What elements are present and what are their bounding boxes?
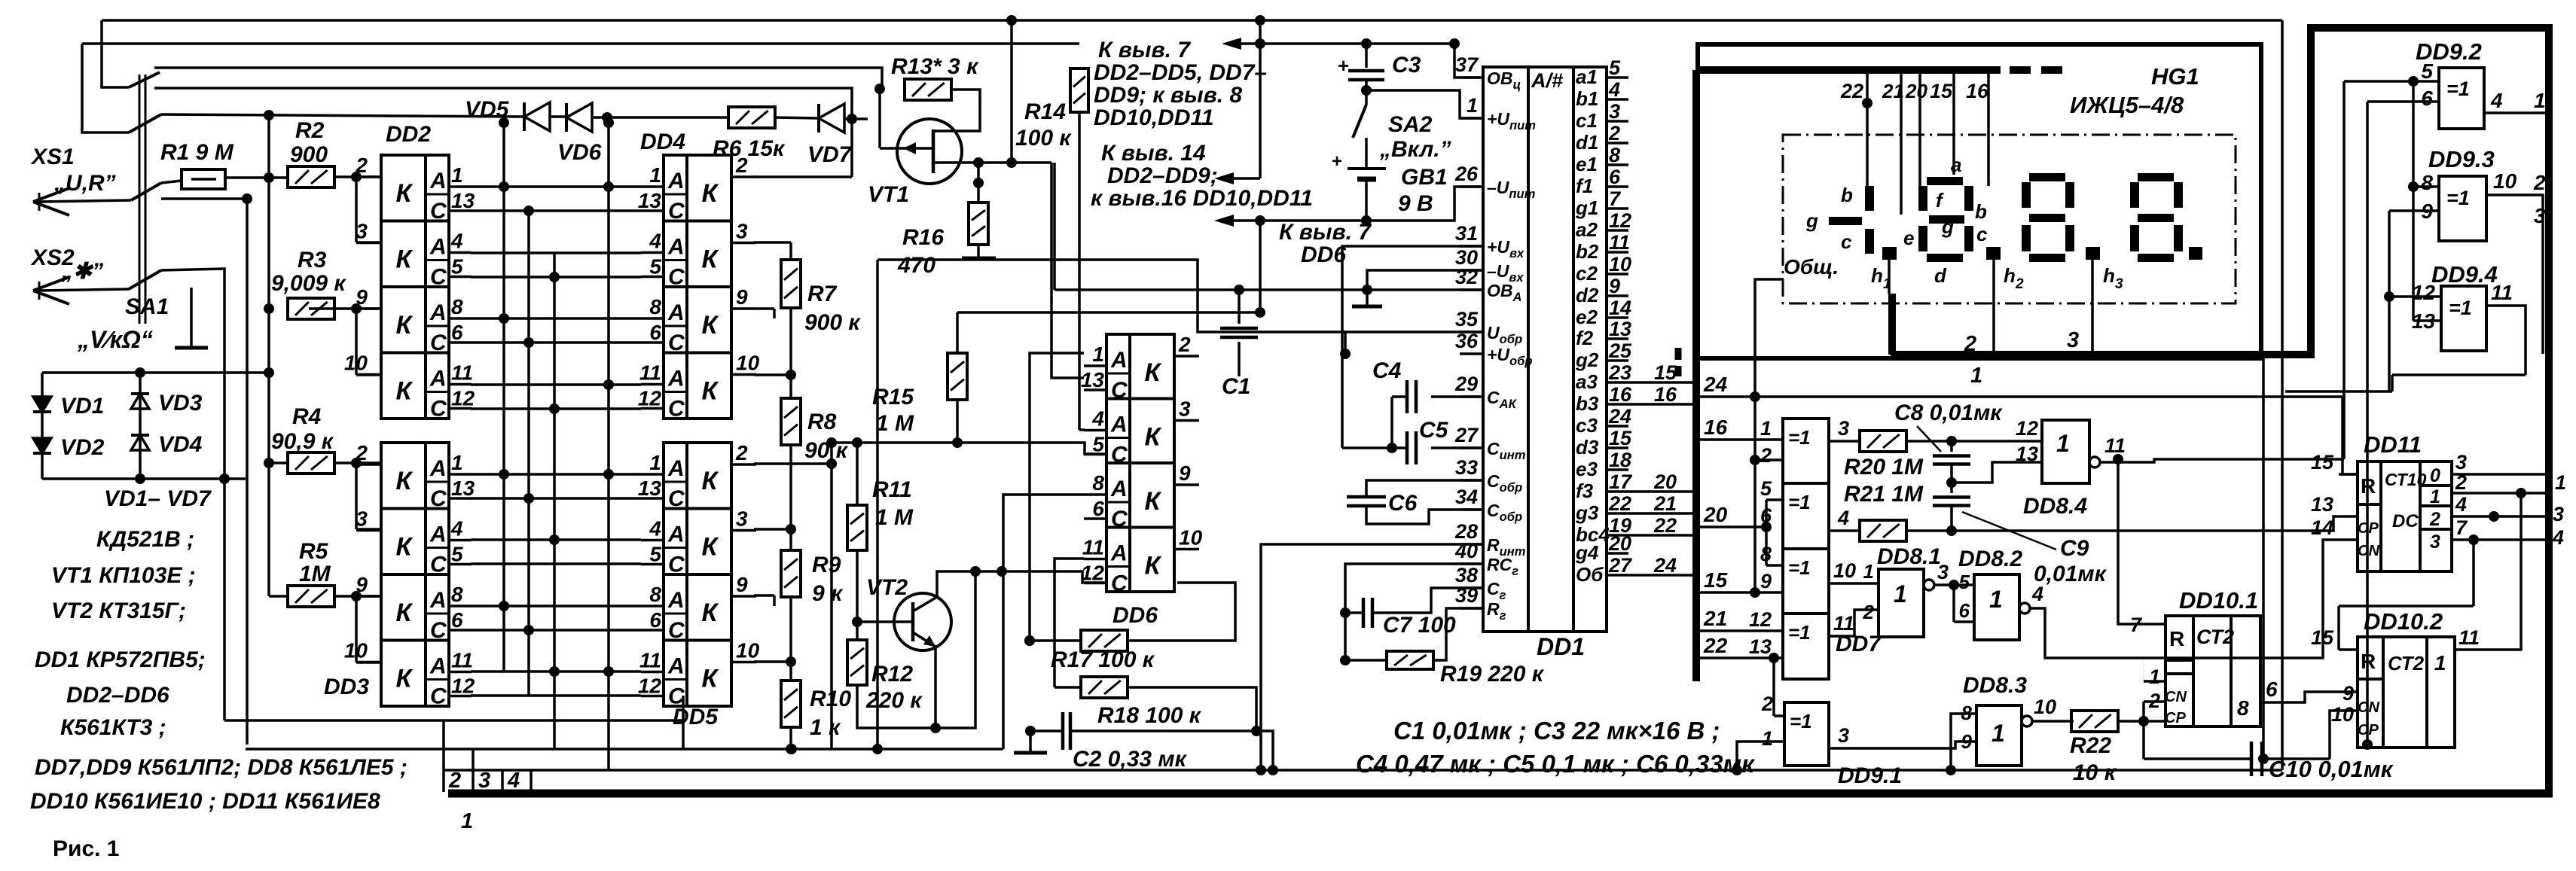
svg-text:R2: R2	[295, 118, 325, 143]
svg-text:К: К	[1145, 358, 1162, 387]
IC DD11 pin15	[2339, 473, 2358, 476]
wire bridge mid	[139, 373, 142, 479]
connector XS1 plug	[33, 188, 69, 202]
wire DD9.2 out4	[2484, 111, 2549, 114]
svg-text:15: 15	[1930, 80, 1953, 102]
svg-text:SA1: SA1	[125, 294, 169, 319]
wire R5 in	[269, 595, 288, 598]
wire DD11 out7	[2452, 538, 2549, 541]
wire mesh vertical b	[527, 211, 530, 696]
svg-text:35: 35	[1455, 308, 1479, 330]
svg-text:15: 15	[1609, 427, 1632, 449]
display HG1 box	[1698, 44, 2261, 358]
resistor R12	[847, 640, 867, 685]
wire bottom y957	[224, 719, 683, 722]
wire bus tick 3	[472, 749, 475, 792]
IC DD8.4 body	[2042, 420, 2089, 483]
wire Obshch	[1755, 279, 1784, 397]
wire DD1 net 16	[1628, 403, 1696, 406]
battery GB1	[1348, 167, 1386, 170]
capacitor C3	[1365, 44, 1368, 68]
svg-text:R: R	[2169, 627, 2184, 650]
resistor R15	[948, 353, 967, 400]
wire bus tick 1	[530, 770, 533, 792]
svg-text:g3: g3	[1575, 501, 1599, 524]
svg-text:20: 20	[1703, 503, 1728, 526]
wire R13 loop right	[932, 90, 980, 131]
resistor R3	[288, 298, 334, 319]
IC DD11 pin14	[2339, 539, 2358, 541]
svg-text:К: К	[396, 533, 414, 562]
svg-text:11: 11	[451, 361, 473, 385]
resistor R5	[288, 586, 334, 607]
wire R21 out long	[1906, 516, 2358, 531]
svg-text:4: 4	[450, 230, 463, 253]
wire OVA ground rail	[1055, 288, 1483, 291]
wire bottom y1023	[444, 769, 2282, 772]
svg-text:Oб: Oб	[1576, 563, 1604, 586]
svg-text:=1: =1	[2446, 187, 2470, 209]
svg-text:11: 11	[2104, 434, 2126, 457]
svg-text:5: 5	[451, 255, 463, 279]
junction R1/R2 node	[264, 172, 274, 183]
svg-text:DD9.1: DD9.1	[1838, 763, 1902, 788]
svg-text:d2: d2	[1576, 284, 1599, 306]
svg-text:4: 4	[2031, 583, 2043, 605]
wire R11 to R12	[856, 550, 859, 640]
svg-text:8: 8	[1609, 144, 1620, 166]
display pin 20 wire	[1918, 74, 1921, 186]
svg-text:9: 9	[736, 573, 748, 596]
junction C8 bottom	[1946, 477, 1957, 488]
svg-text:СР: СР	[2165, 710, 2186, 726]
wire top bus L3 to R13	[154, 68, 882, 89]
svg-text:h: h	[2103, 264, 2115, 287]
digit1 segment b	[1865, 186, 1874, 211]
wire DD9.4 in12	[2389, 295, 2441, 298]
svg-text:С: С	[1111, 507, 1128, 531]
svg-text:470: 470	[897, 253, 935, 278]
svg-text:К: К	[702, 598, 719, 627]
svg-text:6: 6	[1609, 166, 1621, 188]
wire DD3 pins 9-10 link	[355, 596, 358, 662]
wire DD6 A1 feeder	[1030, 353, 1084, 641]
wire R19 left	[1345, 659, 1387, 662]
svg-text:22: 22	[1653, 514, 1677, 537]
svg-text:32: 32	[1455, 266, 1478, 288]
IC DD5 switch array	[664, 443, 731, 706]
svg-text:К: К	[1145, 487, 1162, 516]
svg-text:10: 10	[736, 639, 760, 662]
junction bridge bottom	[135, 474, 145, 484]
svg-text:a2: a2	[1576, 218, 1598, 241]
wire C2 left	[1030, 729, 1063, 732]
wire DD8.2out4 to pin1	[2143, 658, 2144, 681]
svg-text:А: А	[1110, 413, 1128, 437]
wire GB1 to pin26	[1365, 179, 1368, 221]
junction mesh b	[523, 337, 534, 348]
junction divider at R4	[264, 458, 274, 468]
svg-text:0: 0	[2430, 465, 2440, 486]
wire h2 down	[1992, 260, 1995, 355]
wire DD7 in6 stub	[1755, 526, 1766, 528]
wire R7 to R8	[789, 308, 792, 399]
svg-text:8: 8	[451, 583, 463, 606]
junction mesh a top	[499, 117, 509, 128]
junction R2 out	[351, 172, 362, 182]
svg-text:1: 1	[1970, 364, 1982, 388]
svg-text:С: С	[430, 265, 447, 290]
IC DD8.2 body	[1974, 574, 2019, 640]
junction y995 x1165	[872, 744, 883, 754]
wire R4 in	[269, 461, 288, 464]
wire rail R6 segment	[551, 115, 566, 118]
svg-text:А/#: А/#	[1531, 69, 1563, 92]
wire net A2 DD2-DD4	[471, 251, 641, 254]
svg-text:5: 5	[1092, 433, 1104, 456]
thick display bottom	[1891, 351, 2315, 358]
svg-text:А: А	[667, 235, 685, 260]
svg-text:А: А	[429, 367, 447, 391]
svg-text:А: А	[429, 522, 447, 547]
svg-text:g: g	[1941, 215, 1954, 238]
junction DD7 in2	[1750, 455, 1760, 465]
junction plus rail top	[1255, 15, 1265, 26]
svg-text:С: С	[1111, 443, 1128, 467]
svg-text:13: 13	[451, 189, 475, 212]
svg-text:22: 22	[1608, 492, 1631, 515]
IC DD8.3 out circle	[2022, 716, 2032, 726]
thick border left of DD9	[2307, 28, 2315, 354]
resistor R19	[1387, 651, 1433, 669]
svg-text:К: К	[396, 179, 414, 208]
digit3 eight	[2029, 173, 2065, 181]
transistor VT2 base bar	[911, 602, 915, 641]
wire DD10.1 pin1 in	[2144, 680, 2165, 683]
junction R4 out	[351, 458, 362, 468]
svg-text:9: 9	[736, 285, 748, 309]
junction rail at x806	[602, 112, 612, 123]
svg-text:3: 3	[1838, 417, 1849, 440]
wire DD5 pin2 to mid	[754, 462, 832, 465]
wire DD10.2 out11	[2455, 493, 2521, 650]
svg-text:1 к: 1 к	[810, 715, 841, 740]
svg-text:g1: g1	[1575, 196, 1598, 219]
svg-text:9: 9	[2343, 682, 2354, 705]
junction chain DD5 pin3	[786, 524, 796, 534]
digit2 segment a	[1927, 177, 1963, 185]
svg-text:8: 8	[1092, 471, 1104, 495]
wire bridge bottom	[42, 477, 246, 480]
svg-text:b3: b3	[1576, 392, 1599, 415]
svg-text:13: 13	[2016, 443, 2038, 465]
svg-text:9: 9	[1609, 275, 1620, 297]
wire rail after R6	[774, 117, 818, 118]
svg-text:6: 6	[1959, 599, 1970, 622]
wire DD7 in1 stub	[1755, 439, 1783, 440]
svg-text:13: 13	[1081, 368, 1105, 391]
junction plus rail	[1255, 38, 1265, 49]
svg-text:3: 3	[2115, 276, 2123, 292]
resistor R13	[905, 79, 951, 100]
svg-text:С2 0,33 мк: С2 0,33 мк	[1073, 747, 1188, 772]
svg-text:900: 900	[290, 142, 328, 167]
wire source to R16	[977, 163, 980, 203]
svg-text:6: 6	[1092, 497, 1104, 520]
wire DD9.4 in13	[2413, 319, 2441, 322]
junction C4C5	[1387, 443, 1397, 453]
wire DD10.1 out6	[2260, 692, 2358, 702]
wire pin35 staircase	[1345, 332, 1483, 354]
wire net A1 DD3-DD5	[471, 473, 641, 476]
svg-text:1: 1	[2430, 486, 2440, 507]
svg-text:А: А	[429, 169, 447, 193]
wire DD4 pin10 stub	[754, 373, 791, 376]
svg-text:VT1 КП103Е ;: VT1 КП103Е ;	[51, 563, 196, 588]
svg-text:c: c	[1841, 230, 1852, 253]
wire right vert x3112	[2343, 81, 2346, 459]
wire minus rail drop	[1259, 221, 1262, 312]
wire net A3 DD3-DD5	[471, 605, 641, 608]
junction VT1 source x1343	[1006, 157, 1017, 168]
svg-text:15: 15	[2311, 626, 2334, 649]
wire C7 left	[1345, 611, 1363, 614]
svg-text:2: 2	[735, 441, 748, 464]
svg-text:5: 5	[1609, 56, 1621, 79]
wire DD7 vert chain	[1753, 397, 1757, 592]
svg-text:А: А	[1110, 348, 1128, 373]
wire pin1 jog	[1366, 90, 1483, 118]
svg-text:К: К	[702, 665, 719, 693]
wire net C2 DD3-DD5	[471, 562, 641, 565]
junction C8 top	[1946, 436, 1957, 446]
svg-text:R21 1М: R21 1М	[1844, 482, 1924, 507]
wire DD7 out10	[1829, 582, 1879, 585]
wire mid vertical x1165	[876, 260, 879, 749]
svg-text:4: 4	[649, 230, 661, 253]
wire R4 out	[334, 461, 381, 464]
svg-text:23: 23	[1608, 361, 1631, 384]
svg-text:R18 100 к: R18 100 к	[1097, 703, 1202, 728]
svg-text:2: 2	[1760, 444, 1772, 467]
junction mesh a	[499, 313, 509, 324]
wire DD9.3 out10	[2486, 195, 2543, 354]
junction out2	[2516, 488, 2526, 498]
svg-text:2: 2	[2455, 471, 2467, 494]
svg-text:c3: c3	[1576, 414, 1598, 437]
junction DD7 in9	[1750, 587, 1760, 598]
thick bus dashes	[1675, 348, 1682, 360]
wire R22 node down	[2142, 721, 2145, 759]
capacitor C1	[1238, 290, 1241, 324]
svg-text:3: 3	[1609, 100, 1620, 123]
svg-text:12: 12	[451, 387, 475, 410]
wire net22 to DD9.1	[1772, 658, 1775, 716]
display pin 15 wire	[1952, 74, 1955, 175]
svg-text:1: 1	[2434, 651, 2446, 675]
svg-text:1: 1	[2555, 471, 2566, 494]
svg-text:К: К	[702, 467, 719, 495]
wire L1 right drop	[2281, 20, 2284, 770]
wire net C4 DD3-DD5	[471, 694, 641, 697]
svg-text:К: К	[702, 245, 719, 274]
svg-text:2: 2	[1608, 122, 1620, 145]
thick bottom bus	[448, 790, 2553, 798]
thick bus vertical	[1692, 70, 1700, 681]
wire VT2 collector up	[937, 571, 1106, 597]
digit2 segment c	[1964, 226, 1973, 251]
svg-text:1: 1	[1894, 580, 1907, 608]
svg-text:f1: f1	[1576, 175, 1593, 197]
svg-text:34: 34	[1455, 486, 1478, 508]
wire DD7 out4	[1829, 529, 1860, 532]
transistor VT2 emitter	[913, 632, 935, 647]
svg-text:8: 8	[2237, 696, 2249, 720]
svg-text:Общ.: Общ.	[1784, 255, 1839, 279]
wire arrow K vyv14	[1226, 177, 1260, 180]
svg-text:4: 4	[1837, 507, 1849, 529]
junction pin36 node	[1340, 349, 1351, 359]
digit2 segment f	[1918, 186, 1927, 211]
IC DD8.2 out circle	[2019, 603, 2030, 614]
capacitor C8	[1950, 441, 1953, 452]
svg-text:13: 13	[2311, 493, 2333, 516]
svg-text:1: 1	[451, 451, 463, 474]
digit2 segment g	[1929, 215, 1964, 224]
wire pin31 drop	[1342, 246, 1483, 448]
junction rail at VD7 out	[847, 114, 857, 124]
transistor VT1 circle	[897, 119, 962, 184]
svg-text:12: 12	[638, 675, 662, 698]
svg-text:27: 27	[1608, 554, 1633, 577]
svg-text:b: b	[1841, 184, 1853, 206]
IC DD9.3 body	[2439, 176, 2486, 241]
diode VD4	[131, 435, 149, 450]
svg-text:h: h	[2004, 264, 2016, 287]
svg-text:a: a	[1951, 154, 1961, 176]
svg-text:С10 0,01мк: С10 0,01мк	[2269, 756, 2394, 782]
junction mesh c	[549, 534, 560, 545]
svg-text:К выв. 14: К выв. 14	[1101, 141, 1206, 166]
svg-text:a3: a3	[1576, 370, 1598, 393]
capacitor C10	[2250, 742, 2254, 776]
svg-text:СN: СN	[2358, 699, 2379, 716]
switch SA2	[1353, 105, 1366, 138]
svg-text:R7: R7	[807, 282, 838, 306]
svg-text:4: 4	[649, 517, 661, 541]
junction out7	[2468, 534, 2479, 545]
wire DD8.1out to DD8.2 in6	[1952, 585, 1955, 622]
svg-text:2: 2	[448, 769, 461, 793]
resistor R14	[1070, 69, 1088, 112]
junction DD8.1 out	[1949, 580, 1959, 590]
junction R3 out	[351, 303, 362, 314]
resistor R2	[288, 166, 334, 187]
svg-text:VD2: VD2	[60, 435, 105, 460]
IC DD8.1 out circle	[1924, 580, 1934, 590]
wire C8 pointer	[1917, 426, 1941, 452]
svg-text:10: 10	[1609, 253, 1631, 276]
svg-text:R6 15к: R6 15к	[713, 136, 786, 161]
svg-text:С: С	[668, 486, 685, 511]
wire K vyv14 drop	[1259, 44, 1262, 178]
svg-text:1: 1	[1989, 586, 2003, 613]
svg-text:С: С	[430, 618, 447, 643]
wire h3 down	[2091, 260, 2094, 355]
svg-text:„Вкл.”: „Вкл.”	[1379, 137, 1451, 162]
svg-text:С: С	[430, 553, 447, 577]
svg-text:СР: СР	[2358, 520, 2379, 537]
wire net C3 DD2-DD4	[471, 341, 641, 344]
wire diode rail	[161, 114, 523, 117]
svg-text:R16: R16	[902, 225, 944, 250]
junction pin7 net	[2113, 454, 2123, 464]
junction divider at bridge	[264, 367, 274, 378]
svg-text:15: 15	[1654, 361, 1677, 384]
wire right horiz y520	[2285, 390, 2392, 393]
svg-text:=1: =1	[1788, 621, 1811, 644]
svg-text:5: 5	[451, 543, 463, 566]
wire arrow K vyv7	[1234, 42, 1260, 45]
svg-text:=1: =1	[2446, 78, 2470, 100]
svg-text:11: 11	[2458, 626, 2480, 649]
IC DD10.2 pin15	[2339, 648, 2358, 651]
svg-text:R14: R14	[1024, 99, 1066, 124]
wire DD7 out11	[1829, 610, 1879, 636]
svg-text:3: 3	[2067, 328, 2079, 352]
junction R18/C2 node	[1251, 726, 1262, 736]
svg-text:А: А	[667, 456, 685, 481]
svg-text:c: c	[1976, 223, 1988, 245]
wire right horiz y498	[2392, 373, 2526, 376]
junction L1 x1343	[1006, 15, 1017, 26]
svg-text:3: 3	[356, 220, 368, 243]
wire pin40 C7 loop	[1345, 564, 1483, 660]
wire DD6 A3 feeder	[1003, 495, 1084, 749]
wire DD10.2 pin15 up	[2337, 606, 2340, 650]
svg-text:GB1: GB1	[1401, 165, 1448, 190]
svg-text:R22: R22	[2070, 733, 2111, 758]
svg-text:DD8.1: DD8.1	[1877, 544, 1941, 569]
svg-text:2: 2	[355, 154, 368, 177]
wire net C1 DD3-DD5	[471, 497, 641, 500]
wire pin27 C5	[1431, 446, 1483, 449]
svg-text:3: 3	[1179, 397, 1191, 421]
svg-text:24: 24	[1653, 554, 1677, 577]
wire DD4 pin9 stub	[754, 307, 774, 310]
svg-text:11: 11	[2491, 281, 2513, 304]
svg-text:2: 2	[2429, 509, 2440, 530]
wire mesh vertical a	[502, 123, 505, 672]
diode VD5	[524, 102, 550, 131]
wire minus rail	[1234, 219, 1366, 222]
wire top bus L2 to R14	[82, 42, 1079, 45]
svg-text:20: 20	[1608, 532, 1631, 555]
svg-text:25: 25	[1608, 340, 1632, 362]
junction mesh d	[603, 379, 614, 390]
wire R12 bottom	[857, 571, 975, 728]
wire C4 down	[1390, 397, 1393, 448]
svg-text:КД521В ;: КД521В ;	[96, 527, 194, 552]
svg-text:11: 11	[451, 649, 473, 672]
IC DD3 switch array	[381, 443, 449, 706]
svg-text:11: 11	[639, 361, 661, 385]
svg-text:DD2: DD2	[386, 122, 431, 147]
wire bridge left	[41, 373, 44, 479]
wire DD4 pin3 to R7	[754, 241, 791, 244]
display crystal dashed box	[1783, 135, 2236, 303]
digit1 segment c	[1865, 229, 1874, 254]
